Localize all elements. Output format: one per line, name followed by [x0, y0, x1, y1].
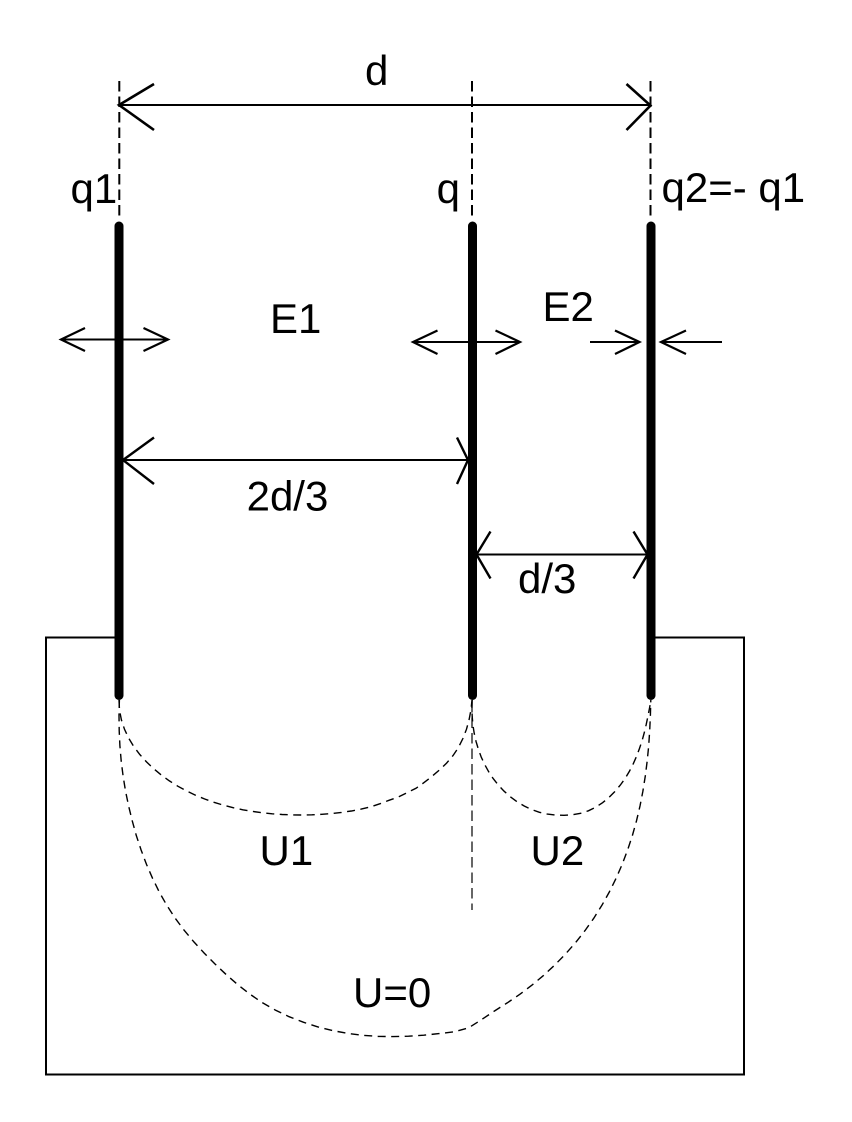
- centerline above plate q1: [118, 81, 120, 219]
- field arrow into plate q2 from left: [590, 331, 640, 355]
- plate q (middle electrode): [468, 226, 477, 696]
- dimension 2d/3 left arrowhead: [123, 438, 154, 485]
- dimension 2d/3 line: [123, 459, 468, 461]
- equipotential curve U=0: [119, 700, 651, 1037]
- field arrow at plate q (double headed): [413, 331, 520, 355]
- svg-text:q2=- q1: q2=- q1: [662, 164, 806, 211]
- svg-text:U2: U2: [531, 827, 585, 874]
- grounded tank / box enclosure: [46, 638, 744, 1075]
- dimension d left arrowhead: [119, 84, 154, 130]
- equipotential curve U2: [472, 700, 651, 815]
- svg-text:U=0: U=0: [353, 969, 431, 1016]
- dimension d line: [119, 104, 651, 106]
- dimension 2d/3 right arrowhead: [457, 438, 468, 485]
- dimension d right arrowhead: [627, 84, 651, 130]
- centerline above plate q: [471, 81, 473, 219]
- plate q2 (right electrode): [647, 226, 656, 696]
- dimension d/3 line: [477, 554, 648, 556]
- field arrow at plate q1 (double headed): [61, 328, 168, 351]
- svg-text:E1: E1: [270, 295, 321, 342]
- svg-text:U1: U1: [260, 827, 314, 874]
- svg-text:d/3: d/3: [518, 555, 576, 602]
- dimension d/3 right arrowhead: [634, 532, 648, 579]
- svg-text:q: q: [437, 165, 460, 212]
- svg-text:E2: E2: [543, 283, 594, 330]
- equipotential curve U1: [119, 700, 472, 815]
- svg-text:q1: q1: [71, 165, 118, 212]
- centerline above plate q2: [650, 81, 652, 219]
- svg-text:d: d: [365, 47, 388, 94]
- svg-text:2d/3: 2d/3: [247, 473, 329, 520]
- centerline below plate q: [471, 702, 473, 910]
- plate q1 (left electrode): [115, 226, 124, 696]
- dimension d/3 left arrowhead: [477, 532, 491, 579]
- field arrow into plate q2 from right: [661, 331, 722, 355]
